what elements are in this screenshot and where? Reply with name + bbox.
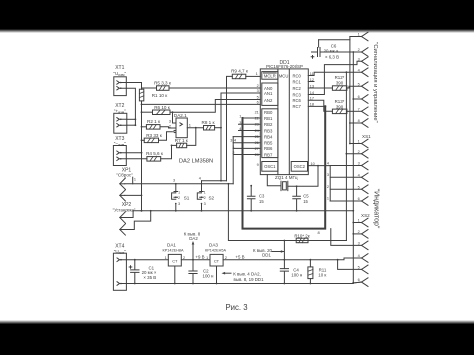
capacitor C2 xyxy=(189,260,197,285)
svg-text:RB7: RB7 xyxy=(264,152,273,157)
junction xyxy=(195,127,197,129)
svg-text:R1 10 к: R1 10 к xyxy=(152,93,169,98)
svg-text:23: 23 xyxy=(255,123,259,127)
wire common node to DD1 pin6 xyxy=(142,103,261,105)
svg-text:28: 28 xyxy=(255,153,259,157)
svg-text:R5 3,3 к: R5 3,3 к xyxy=(154,81,172,86)
svg-text:RB3: RB3 xyxy=(264,128,273,133)
svg-text:+9 В: +9 В xyxy=(195,255,204,260)
svg-text:100 н: 100 н xyxy=(291,272,303,277)
svg-text:25: 25 xyxy=(255,135,259,139)
svg-text:СТ: СТ xyxy=(214,258,220,263)
resistor R4 xyxy=(126,158,147,160)
socket XS2 arrows 1-6 xyxy=(362,218,369,227)
mcu DD1 xyxy=(260,69,308,175)
svg-text:XS1: XS1 xyxy=(362,134,371,139)
junction xyxy=(324,105,326,107)
svg-text:26: 26 xyxy=(255,141,259,145)
resistor R10 xyxy=(296,238,308,243)
svg-text:R13*: R13* xyxy=(335,99,345,104)
junction xyxy=(141,210,143,212)
wire R8 riser to AN1 xyxy=(221,93,260,128)
arrow to DA2 pin4 / DD1 gnd xyxy=(222,272,232,275)
svg-text:3: 3 xyxy=(358,242,360,246)
svg-text:1: 1 xyxy=(232,145,234,149)
svg-text:5: 5 xyxy=(257,96,259,100)
svg-text:2: 2 xyxy=(358,230,360,234)
OSC2 cell xyxy=(291,162,307,172)
svg-text:4: 4 xyxy=(358,173,360,177)
svg-text:R2 1 к: R2 1 к xyxy=(147,119,161,124)
svg-text:3: 3 xyxy=(239,121,241,125)
svg-text:× 6,3 В: × 6,3 В xyxy=(325,54,339,59)
svg-text:AN2: AN2 xyxy=(264,98,273,103)
connector XT2 xyxy=(114,113,127,133)
wire XP2 pin1 xyxy=(125,211,133,218)
wire RB5 xyxy=(233,142,260,144)
svg-text:10 к: 10 к xyxy=(318,273,326,278)
svg-text:5: 5 xyxy=(358,185,360,189)
svg-text:RB5: RB5 xyxy=(264,141,273,146)
junction xyxy=(141,104,143,106)
wire RB6 xyxy=(233,147,260,149)
wire OSC2 to crystal xyxy=(288,166,330,187)
wire R5 to AN0 xyxy=(169,87,260,89)
junction xyxy=(317,165,319,167)
plug XP2 xyxy=(120,212,126,235)
svg-text:+5 В: +5 В xyxy=(235,255,244,260)
resistor R3 xyxy=(142,139,145,141)
svg-text:S2: S2 xyxy=(208,195,214,200)
wire comb to XS1 pins 3-6 xyxy=(329,166,331,201)
svg-text:RB2: RB2 xyxy=(264,122,273,127)
svg-text:12: 12 xyxy=(310,78,314,82)
svg-text:17: 17 xyxy=(310,97,314,101)
capacitor C4 xyxy=(280,269,288,285)
wire button top rail xyxy=(202,180,227,182)
svg-text:1: 1 xyxy=(239,115,241,119)
svg-text:1: 1 xyxy=(134,177,136,181)
wire to op-amp pin3 xyxy=(173,112,177,123)
svg-text:C3: C3 xyxy=(259,194,265,199)
svg-text:RC3: RC3 xyxy=(293,92,302,97)
junction xyxy=(352,282,354,284)
svg-text:4: 4 xyxy=(234,138,236,142)
svg-text:AN1: AN1 xyxy=(264,91,273,96)
wire RB7 riser to lower button rail xyxy=(233,137,260,184)
capacitor C1 (polar) xyxy=(129,259,139,285)
svg-text:"Сигнализация и управление": "Сигнализация и управление" xyxy=(372,42,378,122)
svg-text:2: 2 xyxy=(225,256,227,260)
wire XT1 pin1 down xyxy=(126,83,141,90)
svg-text:OSC1: OSC1 xyxy=(264,164,276,169)
top letterbox bar xyxy=(0,0,474,33)
svg-text:R4 5,6 к: R4 5,6 к xyxy=(146,151,164,156)
wire OSC1 to crystal xyxy=(267,175,281,186)
svg-text:1: 1 xyxy=(358,140,360,144)
svg-text:5: 5 xyxy=(358,266,360,270)
svg-text:выв. 8, 19 DD1: выв. 8, 19 DD1 xyxy=(233,277,264,282)
MCLR cell xyxy=(262,72,278,80)
svg-text:Рис. 3: Рис. 3 xyxy=(225,303,247,312)
resistor R2 xyxy=(142,126,147,128)
junction xyxy=(171,145,173,147)
resistor R5 xyxy=(142,87,157,89)
plug XP1 xyxy=(120,178,126,201)
junction xyxy=(135,118,137,120)
regulator DA3 xyxy=(210,254,223,284)
svg-text:2: 2 xyxy=(232,151,234,155)
wire RB2 stub xyxy=(239,123,261,125)
junction xyxy=(135,124,137,126)
svg-text:1: 1 xyxy=(358,219,360,223)
svg-text:R3 33 к: R3 33 к xyxy=(146,133,163,138)
svg-text:MCU: MCU xyxy=(279,73,289,78)
svg-text:1: 1 xyxy=(178,190,180,194)
wire R6 to AN2 riser xyxy=(170,100,260,113)
top connector arrows 1-8 xyxy=(350,32,368,41)
svg-text:RB0: RB0 xyxy=(264,110,273,115)
wire RC1 stub xyxy=(308,81,314,83)
junction xyxy=(284,240,286,242)
svg-text:R8 1 к: R8 1 к xyxy=(202,120,216,125)
svg-text:1: 1 xyxy=(204,190,206,194)
svg-text:1: 1 xyxy=(327,197,329,201)
junction xyxy=(220,180,222,182)
resistor R9 xyxy=(227,76,233,180)
OSC1 cell xyxy=(262,162,278,172)
junction xyxy=(337,259,339,261)
arrow to DD1 pin20 xyxy=(272,250,284,253)
svg-text:18: 18 xyxy=(310,103,314,107)
junction xyxy=(141,111,143,113)
junction xyxy=(352,51,354,53)
svg-text:13: 13 xyxy=(310,84,314,88)
svg-text:RC1: RC1 xyxy=(293,79,302,84)
junction xyxy=(141,139,143,141)
junction xyxy=(220,127,222,129)
svg-text:R7 1 к: R7 1 к xyxy=(175,138,189,143)
wire XP1 pin1 to button row xyxy=(125,183,234,185)
resistor R8 xyxy=(204,126,215,131)
svg-text:2: 2 xyxy=(327,185,329,189)
wire XT2 pins xyxy=(127,118,136,120)
svg-text:ZQ1 4 МГц: ZQ1 4 МГц xyxy=(275,175,298,180)
svg-text:5: 5 xyxy=(358,82,360,86)
svg-text:4: 4 xyxy=(239,127,241,131)
junction xyxy=(349,143,351,145)
junction xyxy=(346,71,348,73)
junction xyxy=(141,210,143,212)
wire RC2 to R12 xyxy=(308,87,332,89)
svg-text:2: 2 xyxy=(257,84,259,88)
svg-text:"Сброс": "Сброс" xyxy=(116,173,133,178)
svg-text:4: 4 xyxy=(358,254,360,258)
svg-text:2: 2 xyxy=(358,150,360,154)
socket XS1 arrows 1-6 xyxy=(362,139,369,148)
wire XS2 pin5 feed xyxy=(338,260,362,270)
wire RC3 to arrow3 xyxy=(308,61,361,94)
power rail +U xyxy=(126,259,168,261)
wire C4 riser from R10 rail xyxy=(283,241,285,269)
svg-text:КР142ЕН8А: КР142ЕН8А xyxy=(163,248,184,252)
svg-text:R12*: R12* xyxy=(335,75,345,80)
wire MCLR pin11 RC0 to arrow4 xyxy=(308,72,361,75)
resistor R1 (vertical) xyxy=(139,89,143,101)
svg-text:S1: S1 xyxy=(184,195,190,200)
resistor R7 (feedback) xyxy=(172,144,177,146)
svg-text:2: 2 xyxy=(178,196,180,200)
ground rail xyxy=(126,283,353,285)
svg-text:DD1: DD1 xyxy=(262,253,271,258)
button S2 xyxy=(197,181,203,212)
svg-text:20 мк ×: 20 мк × xyxy=(324,49,339,54)
svg-text:DA3: DA3 xyxy=(209,243,218,248)
svg-text:RB6: RB6 xyxy=(264,146,273,151)
crystal ZQ1 xyxy=(281,181,288,190)
wire feeder to bottom rail xyxy=(228,184,346,241)
svg-text:390: 390 xyxy=(336,105,344,110)
wire rail end joins bus B xyxy=(352,210,354,212)
svg-text:К выв. 4 DA2,: К выв. 4 DA2, xyxy=(233,271,260,276)
svg-text:8: 8 xyxy=(358,119,360,123)
svg-text:DA2 LM358N: DA2 LM358N xyxy=(179,158,213,164)
wire RB1 heavy loop xyxy=(243,117,261,119)
svg-text:10: 10 xyxy=(311,162,315,166)
regulator DA1 xyxy=(168,254,181,284)
junction xyxy=(352,222,354,224)
svg-text:2: 2 xyxy=(358,48,360,52)
svg-text:24: 24 xyxy=(255,129,259,133)
svg-text:3: 3 xyxy=(204,202,206,206)
svg-text:2: 2 xyxy=(183,256,185,260)
svg-text:DA2.1: DA2.1 xyxy=(174,113,187,118)
svg-text:15: 15 xyxy=(259,199,264,204)
svg-text:OSC2: OSC2 xyxy=(294,164,306,169)
wire bus vertical C to XS1 pin2 xyxy=(345,72,347,240)
svg-text:3: 3 xyxy=(327,173,329,177)
wire common rail (mid) xyxy=(133,210,353,212)
svg-text:6: 6 xyxy=(257,100,259,104)
svg-text:XS2: XS2 xyxy=(361,213,370,218)
svg-text:R6 10 к: R6 10 к xyxy=(154,105,171,110)
svg-text:PIC16F876-20I/SP: PIC16F876-20I/SP xyxy=(266,64,303,69)
junction xyxy=(352,233,354,235)
svg-text:R9 4,7 к: R9 4,7 к xyxy=(231,68,249,73)
svg-text:MCLR: MCLR xyxy=(264,73,276,78)
capacitor C5 xyxy=(293,185,301,211)
svg-text:R10* 2к: R10* 2к xyxy=(294,233,309,238)
svg-text:3: 3 xyxy=(358,162,360,166)
svg-text:КР142ЕН5А: КР142ЕН5А xyxy=(205,248,226,252)
wire XT3 pin1 xyxy=(126,152,141,154)
svg-text:9: 9 xyxy=(257,163,259,167)
button S1 xyxy=(172,183,178,212)
svg-text:1: 1 xyxy=(256,72,258,76)
svg-text:21: 21 xyxy=(255,110,259,114)
wire bus vertical A xyxy=(350,37,362,144)
junction xyxy=(150,210,152,212)
wire RC6 to R13 xyxy=(308,100,332,111)
svg-text:3: 3 xyxy=(257,89,259,93)
junction xyxy=(141,126,143,128)
junction xyxy=(228,183,230,185)
bottom letterbox bar xyxy=(0,320,474,355)
svg-text:3: 3 xyxy=(173,179,175,183)
svg-text:RC7: RC7 xyxy=(293,104,302,109)
junction xyxy=(172,111,174,113)
svg-text:4: 4 xyxy=(199,177,201,181)
svg-text:27: 27 xyxy=(255,147,259,151)
resistor R13 xyxy=(332,109,347,114)
svg-text:14: 14 xyxy=(310,91,314,95)
junction xyxy=(141,152,143,154)
svg-text:4: 4 xyxy=(358,68,360,72)
junction xyxy=(346,153,348,155)
wire XT1 pin2 / XT2 vertical xyxy=(126,88,135,125)
wire RB4 xyxy=(233,136,260,138)
wire R8 node down to button rail xyxy=(220,128,222,181)
wire XS2 pin3 feed xyxy=(331,229,362,246)
wire main left vertical node xyxy=(141,101,143,211)
wire RB3 stub xyxy=(239,130,261,132)
svg-text:3: 3 xyxy=(178,202,180,206)
svg-text:RC6: RC6 xyxy=(293,98,302,103)
op-amp U DA2.1 xyxy=(174,118,188,138)
wire bus vertical B xyxy=(353,52,361,283)
svg-text:4: 4 xyxy=(327,161,329,165)
junction xyxy=(352,98,354,100)
connector XT3 xyxy=(113,146,126,166)
svg-text:15: 15 xyxy=(303,199,308,204)
junction xyxy=(349,122,351,124)
svg-text:390: 390 xyxy=(336,81,344,86)
junction xyxy=(284,259,286,261)
resistor R12 xyxy=(332,86,347,91)
svg-text:1: 1 xyxy=(358,33,360,37)
op-amp output wire xyxy=(187,127,203,129)
RB cell xyxy=(262,109,278,158)
svg-text:11: 11 xyxy=(310,72,314,76)
wire XP1 pin2 xyxy=(125,194,142,196)
svg-text:× 35 В: × 35 В xyxy=(143,275,156,280)
resistor R6 xyxy=(142,111,153,113)
svg-text:6: 6 xyxy=(358,278,360,282)
connector XT4 xyxy=(113,253,126,290)
svg-text:100 н: 100 н xyxy=(203,273,215,278)
svg-text:RC2: RC2 xyxy=(293,86,302,91)
svg-text:"Установка": "Установка" xyxy=(113,207,136,212)
svg-text:СТ: СТ xyxy=(172,258,178,263)
svg-text:22: 22 xyxy=(255,116,259,120)
resistor R11 (vertical) xyxy=(308,259,313,285)
svg-text:RB1: RB1 xyxy=(264,116,273,121)
svg-text:3: 3 xyxy=(230,138,232,142)
svg-text:RC0: RC0 xyxy=(293,73,302,78)
svg-text:7: 7 xyxy=(358,107,360,111)
wire XP2 pin2 xyxy=(125,211,151,230)
svg-text:DA1: DA1 xyxy=(167,243,176,248)
svg-text:DA2: DA2 xyxy=(189,236,198,241)
capacitor C6 xyxy=(311,40,361,58)
connector XT1 xyxy=(114,77,127,96)
junction xyxy=(141,195,143,197)
capacitor C3 xyxy=(247,185,255,212)
svg-text:"Индикатор": "Индикатор" xyxy=(373,189,380,229)
svg-text:C6: C6 xyxy=(331,43,337,48)
svg-text:3: 3 xyxy=(358,57,360,61)
svg-text:2: 2 xyxy=(204,196,206,200)
svg-text:C5: C5 xyxy=(303,194,309,199)
svg-text:6: 6 xyxy=(358,197,360,201)
svg-text:1: 1 xyxy=(165,256,167,260)
AN cell xyxy=(262,83,278,105)
svg-text:1: 1 xyxy=(206,256,208,260)
wire/arrow to DA2 pin8 xyxy=(192,241,195,261)
svg-text:RB4: RB4 xyxy=(264,134,273,139)
svg-text:6: 6 xyxy=(358,95,360,99)
